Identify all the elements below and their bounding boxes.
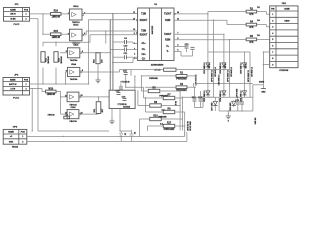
label D6 bbox=[257, 35, 259, 37]
junction J2 net bbox=[42, 83, 89, 84]
capacitor C12 bbox=[123, 70, 128, 74]
resistor R14 (vertical) bbox=[93, 53, 104, 64]
junction on JP1 pin1 net bbox=[42, 13, 43, 14]
label fan values bbox=[158, 95, 177, 125]
svg-text:W D/2 GND: W D/2 GND bbox=[190, 121, 192, 131]
capacitor C18 in box bbox=[116, 90, 121, 94]
svg-text:D2 W: D2 W bbox=[246, 63, 248, 68]
svg-text:D2 W: D2 W bbox=[225, 63, 227, 68]
resistor R15 bbox=[51, 31, 62, 39]
svg-text:W10: W10 bbox=[48, 88, 53, 90]
svg-text:47K: 47K bbox=[249, 13, 254, 16]
svg-text:PWRGND: PWRGND bbox=[176, 78, 187, 80]
label U10:3 74HC04 bbox=[70, 59, 78, 62]
svg-text:11: 11 bbox=[133, 12, 135, 14]
resistor R17 bbox=[163, 122, 175, 130]
svg-text:R17: R17 bbox=[167, 122, 172, 124]
label net col 2a bbox=[227, 70, 229, 81]
wire U10:3 input stub bbox=[60, 52, 68, 54]
wire D7 net to R3 bbox=[126, 86, 144, 88]
svg-text:2: 2 bbox=[272, 20, 273, 22]
wire V+ to C13 bbox=[174, 45, 187, 48]
svg-text:CR3 GND L2: CR3 GND L2 bbox=[220, 63, 222, 74]
svg-text:C2+: C2+ bbox=[141, 54, 146, 56]
svg-text:7: 7 bbox=[272, 52, 273, 54]
svg-text:BATT IN: BATT IN bbox=[9, 83, 17, 86]
svg-text:W 0/2: W 0/2 bbox=[176, 101, 178, 106]
capacitor C20 bbox=[240, 102, 244, 104]
connector UPS table (bottom-left) bbox=[3, 126, 27, 148]
svg-text:1M0148: 1M0148 bbox=[47, 55, 50, 63]
wire R5 right bbox=[160, 90, 180, 92]
svg-text:8: 8 bbox=[272, 58, 273, 60]
wire C19 top stub bbox=[237, 97, 239, 102]
junction C9 bbox=[125, 82, 126, 83]
ground lower tier bbox=[226, 113, 231, 122]
svg-text:1: 1 bbox=[25, 84, 26, 86]
resistor R6 bbox=[246, 36, 257, 44]
wire MAX232 R2OUT net bbox=[43, 35, 138, 43]
svg-text:CR5 GND L2: CR5 GND L2 bbox=[241, 63, 243, 74]
svg-text:GND: GND bbox=[261, 92, 266, 94]
wire lower tier left vert bbox=[218, 97, 220, 111]
svg-text:R1IN: R1IN bbox=[165, 20, 171, 22]
junction at R15 input bbox=[42, 34, 43, 35]
svg-text:BT 0/B: BT 0/B bbox=[155, 70, 162, 72]
label PWRGND bbox=[149, 78, 158, 80]
junction T2IN net bbox=[105, 30, 106, 31]
wire fan vert 1 bbox=[137, 90, 139, 105]
svg-text:47K: 47K bbox=[249, 26, 254, 29]
svg-text:C1+: C1+ bbox=[141, 43, 146, 45]
junction bus at U10:3 output bbox=[110, 49, 113, 54]
diode CR3 bbox=[220, 62, 226, 74]
wire bus to C11 bbox=[113, 56, 125, 58]
diode CR6 bbox=[241, 90, 247, 102]
svg-text:2: 2 bbox=[25, 88, 26, 90]
svg-text:UPS: UPS bbox=[13, 126, 18, 128]
svg-text:CR GND L2: CR GND L2 bbox=[231, 67, 233, 77]
wire lower tier top rail bbox=[182, 96, 253, 98]
svg-text:C8: C8 bbox=[134, 132, 136, 134]
svg-text:GND: GND bbox=[9, 141, 14, 143]
wire top rail bbox=[208, 51, 250, 53]
label U10:5 74HC04 bbox=[69, 104, 77, 109]
wire T2OUT net bbox=[174, 33, 224, 35]
svg-text:MAX232: MAX232 bbox=[151, 25, 154, 34]
svg-text:74HC04: 74HC04 bbox=[69, 120, 77, 123]
svg-text:CR GND L2: CR GND L2 bbox=[215, 67, 217, 77]
label CB1 bbox=[282, 3, 287, 5]
label net col 1b bbox=[215, 67, 217, 77]
wire bus line A bbox=[109, 20, 111, 90]
wire C14 top stub bbox=[194, 91, 196, 99]
diode D1 bbox=[120, 131, 127, 142]
svg-text:10: 10 bbox=[133, 29, 135, 31]
diode CR2 bbox=[204, 90, 210, 102]
label ADM202E below U1 bbox=[151, 64, 164, 67]
junction R1OUT net bbox=[110, 13, 113, 21]
wire R3 right net bbox=[187, 86, 196, 88]
wire lower tier bottom rail bbox=[219, 110, 253, 112]
junction J2 drop bbox=[32, 88, 33, 132]
label in box bbox=[118, 104, 131, 109]
wire diode column 3 left line bbox=[244, 52, 246, 97]
wire R20 right rail A bbox=[176, 69, 229, 71]
wire net2 through R4 to DB9 pin3 bbox=[257, 25, 270, 27]
connector JP1 table (top-left) bbox=[4, 4, 30, 26]
net label col A bbox=[196, 75, 198, 86]
svg-text:1M0148: 1M0148 bbox=[60, 55, 63, 63]
wire U10:6 input from junction bbox=[61, 97, 68, 114]
net label col C bbox=[236, 88, 238, 97]
svg-text:C1-: C1- bbox=[142, 49, 146, 51]
svg-text:D2: D2 bbox=[257, 7, 259, 9]
junction R2OUT net bbox=[55, 42, 56, 43]
label U10:4 74HC04 bbox=[70, 63, 78, 81]
svg-text:DB9S: DB9S bbox=[284, 20, 290, 22]
wire V- to C17 bbox=[174, 50, 193, 56]
wire U10:5 output right bbox=[81, 96, 109, 98]
ground below box bbox=[109, 118, 114, 124]
wire UPS pin1 rail bbox=[27, 135, 185, 137]
junction R14 top bbox=[97, 52, 98, 53]
wire JP1 pin1 to R16 bbox=[30, 13, 51, 15]
resistor R20 bbox=[164, 68, 176, 71]
svg-text:T2IN: T2IN bbox=[141, 31, 146, 33]
svg-text:D2 W: D2 W bbox=[209, 63, 211, 68]
wire R17 right bbox=[175, 125, 185, 127]
svg-text:1: 1 bbox=[22, 136, 23, 138]
inverter gate U10:4 bbox=[66, 67, 83, 76]
resistor R5 bbox=[148, 87, 160, 92]
wire caps bottom rail bbox=[195, 96, 204, 108]
capacitor C17 bbox=[191, 47, 195, 49]
wire C15 top stub bbox=[200, 91, 202, 99]
junction diode col 3 bbox=[244, 83, 251, 84]
wire R15 to gate U10:2 input bbox=[61, 33, 70, 35]
wire diode column 2 left line bbox=[223, 52, 225, 97]
capacitor C4 bbox=[124, 37, 128, 44]
junction R nets bbox=[195, 83, 196, 84]
svg-text:9: 9 bbox=[134, 33, 135, 35]
wire R14 top to U10:3 output net bbox=[97, 52, 99, 54]
wire bus line B bbox=[112, 14, 114, 91]
resistor W10 bbox=[46, 88, 57, 96]
capacitor C14 bbox=[192, 96, 197, 101]
wire UPS pin1 rail end up bbox=[184, 131, 186, 137]
wire T2OUT col drop bbox=[223, 34, 225, 52]
wire bottom link bbox=[120, 130, 132, 132]
svg-text:U10:4: U10:4 bbox=[71, 63, 76, 66]
label D4 bbox=[257, 19, 260, 22]
inverter gate U10:6 bbox=[65, 110, 83, 119]
wire C4 to C1+ pin bbox=[126, 42, 137, 43]
wire C15 bottom stub bbox=[200, 101, 202, 107]
wire C14 bottom stub bbox=[194, 101, 196, 107]
svg-text:CR4 GND L2: CR4 GND L2 bbox=[217, 75, 220, 86]
wire U10:3 output to bus bbox=[82, 52, 111, 54]
wire R2IN col drop bbox=[228, 40, 230, 52]
label net col 3c bbox=[246, 63, 248, 68]
wire stub to R12 top bbox=[42, 42, 44, 46]
label net col 3a bbox=[248, 70, 250, 81]
svg-text:PWRGND: PWRGND bbox=[164, 129, 175, 131]
wire right bus v1 bbox=[179, 91, 181, 131]
component D8 small box bbox=[64, 114, 70, 118]
resistor R8 bbox=[150, 102, 162, 107]
wire UPS pin2 rail bbox=[27, 141, 187, 143]
capacitor C19 bbox=[235, 100, 240, 104]
wire C20 bottom stub bbox=[241, 104, 243, 111]
resistor R2 bbox=[246, 8, 257, 16]
svg-text:R15: R15 bbox=[54, 31, 59, 33]
resistor R11 (vertical) bbox=[94, 102, 104, 114]
label CPD/D9S bbox=[279, 70, 289, 72]
svg-text:2: 2 bbox=[25, 19, 26, 21]
svg-text:1M0148: 1M0148 bbox=[52, 15, 61, 18]
svg-text:74HC04: 74HC04 bbox=[70, 78, 78, 81]
svg-text:T1OUT: T1OUT bbox=[164, 14, 172, 16]
svg-text:PLCC: PLCC bbox=[13, 98, 19, 100]
wire DB9 pin7 stub bbox=[263, 51, 269, 53]
capacitor C11 bbox=[124, 53, 129, 59]
wire branch to lower tier bbox=[253, 85, 264, 97]
wire G4 net into R20 bbox=[131, 69, 164, 71]
inverter gate U10:3 bbox=[66, 48, 83, 58]
wire lower tier right vert bbox=[252, 97, 254, 111]
svg-text:U10:1: U10:1 bbox=[73, 6, 79, 8]
svg-text:IN EN: IN EN bbox=[10, 19, 16, 21]
svg-text:T1IN: T1IN bbox=[141, 14, 146, 16]
svg-text:74C14: 74C14 bbox=[73, 23, 78, 26]
wire diode column 3 right line bbox=[249, 52, 251, 97]
svg-text:PWRGND: PWRGND bbox=[159, 95, 168, 97]
wire MAX232 R1OUT net down at x88.5 bbox=[89, 20, 136, 84]
svg-text:TB/A2: TB/A2 bbox=[12, 146, 19, 149]
wire R8 left bbox=[138, 105, 150, 107]
svg-text:4+2: 4+2 bbox=[161, 109, 164, 112]
wire box bottom left down bbox=[111, 109, 113, 122]
svg-text:4+2: 4+2 bbox=[160, 123, 163, 126]
junction tier rail bbox=[182, 97, 195, 98]
capacitor C13 bbox=[185, 44, 190, 48]
svg-text:CR9 GND: CR9 GND bbox=[230, 102, 232, 111]
wire T1OUT col drop bbox=[207, 14, 209, 52]
diode CR9 bbox=[230, 100, 236, 111]
wire U10:4 output right bbox=[82, 71, 120, 73]
wire CR7 bottom stub bbox=[214, 107, 216, 111]
svg-text:U10:5: U10:5 bbox=[71, 107, 76, 109]
resistor R7 bbox=[163, 94, 175, 99]
svg-text:R2IN: R2IN bbox=[165, 39, 171, 41]
svg-text:C2-: C2- bbox=[142, 58, 146, 60]
wire R10 left bbox=[140, 118, 150, 120]
wire R13 bottom down bbox=[55, 68, 57, 85]
svg-text:A TW: A TW bbox=[10, 87, 15, 90]
junction D7 net bbox=[125, 87, 126, 88]
wire C20 top stub bbox=[241, 97, 243, 102]
svg-text:NAME: NAME bbox=[10, 78, 16, 81]
junction C2- net bbox=[112, 62, 113, 63]
resistor R16 bbox=[51, 11, 62, 19]
junction C12 net bbox=[125, 69, 142, 77]
wire R9 right bbox=[175, 111, 185, 113]
wire R14 bottom to ground bbox=[97, 64, 99, 80]
wire C2- pin stub down bbox=[113, 59, 138, 63]
wire DB9 pin9 stub bbox=[263, 64, 269, 66]
wire drop from T2IN net bbox=[105, 31, 107, 44]
wire R7 right bbox=[175, 97, 183, 99]
svg-text:6: 6 bbox=[272, 46, 273, 48]
svg-text:1: 1 bbox=[25, 14, 26, 16]
wire J2 pin1 right bbox=[30, 83, 89, 85]
wire R12 bottom to J2 pin1 net bbox=[42, 68, 44, 85]
wire fan vert 4 bbox=[139, 119, 141, 136]
junction diode col 2 bbox=[223, 83, 230, 84]
svg-text:NAME: NAME bbox=[10, 8, 16, 11]
resistor R9 bbox=[163, 108, 175, 113]
wire C10 to C1- pin bbox=[126, 49, 137, 51]
svg-text:NAME: NAME bbox=[284, 8, 290, 11]
svg-text:AGND: AGND bbox=[259, 81, 265, 84]
svg-text:DP B GND: DP B GND bbox=[236, 88, 238, 97]
diode CR1 bbox=[204, 62, 210, 74]
resistor R10 bbox=[150, 115, 162, 120]
net labels right bus bbox=[187, 121, 192, 131]
wire R8 right bbox=[161, 105, 180, 107]
wire fan vert 2 bbox=[140, 76, 142, 91]
svg-text:PWRGND: PWRGND bbox=[158, 117, 167, 119]
svg-text:D1: D1 bbox=[125, 133, 127, 135]
wire feed to C14 bbox=[193, 83, 196, 91]
wire R1 right net bbox=[187, 76, 196, 84]
wire right bus v2 bbox=[181, 98, 183, 131]
ground DB9 earth bar bbox=[261, 85, 266, 94]
wire diode column 2 right line bbox=[228, 52, 230, 97]
svg-text:GND D/2 W: GND D/2 W bbox=[187, 121, 189, 131]
wire R17 left bbox=[148, 125, 164, 127]
svg-text:1M0148: 1M0148 bbox=[47, 93, 56, 96]
inverter gate U10:5 bbox=[65, 92, 83, 102]
svg-text:PLCC: PLCC bbox=[14, 24, 20, 26]
svg-text:CR1 GND L2: CR1 GND L2 bbox=[204, 63, 206, 74]
wire C9 top stub bbox=[120, 84, 122, 88]
svg-text:R2OUT: R2OUT bbox=[140, 34, 148, 36]
svg-text:9: 9 bbox=[272, 64, 273, 66]
wire CR7 top stub bbox=[214, 97, 216, 100]
capacitor C10 bbox=[123, 46, 128, 52]
wire net1 through R2 to DB9 pin1 bbox=[257, 12, 270, 15]
net label AGND bbox=[259, 81, 265, 84]
wire box bottom mid down bbox=[119, 109, 121, 132]
resistor R12 (vertical) bbox=[41, 52, 50, 64]
wire vertical x43 down to R15 input bbox=[43, 14, 51, 34]
wire R16 right to gate U10:1 input bbox=[61, 13, 70, 15]
connector J2 battery table (mid-left) bbox=[3, 74, 30, 99]
wire R1IN col drop bbox=[212, 20, 214, 52]
svg-text:12: 12 bbox=[133, 18, 135, 20]
svg-text:1T D7/B B: 1T D7/B B bbox=[118, 104, 128, 106]
svg-text:D8: D8 bbox=[66, 114, 68, 116]
wire W10 to U10:5 input bbox=[56, 92, 67, 97]
capacitor C15 bbox=[198, 97, 203, 101]
wire branch to U10:4 input bbox=[66, 72, 68, 84]
wire R7 left bbox=[144, 97, 164, 99]
svg-text:CR GND L2: CR GND L2 bbox=[251, 67, 253, 77]
svg-text:DP B GND V2: DP B GND V2 bbox=[227, 70, 229, 81]
block oscillator box bbox=[109, 90, 135, 108]
svg-text:U10:2: U10:2 bbox=[73, 45, 78, 47]
wire R1IN net from DB9 bbox=[174, 20, 246, 24]
label D2 bbox=[257, 7, 259, 9]
ground below R14 bbox=[95, 77, 100, 83]
label net col 1a bbox=[211, 70, 213, 81]
svg-text:NAME: NAME bbox=[8, 131, 14, 134]
resistor R1 bbox=[176, 73, 187, 81]
label U10:1 74HC14 bbox=[72, 6, 80, 26]
wire bus to C10 bbox=[110, 49, 124, 51]
label U10:2 74HC14 bbox=[72, 41, 80, 46]
wire C12 top bbox=[125, 70, 127, 73]
wire R2IN net3 bbox=[174, 38, 246, 40]
junction fan bus bbox=[179, 90, 185, 126]
svg-text:T2OUT: T2OUT bbox=[164, 34, 172, 36]
diode CR5 bbox=[241, 62, 247, 74]
wire fan vert 3 bbox=[145, 97, 147, 112]
svg-text:GND B2: GND B2 bbox=[255, 118, 257, 125]
wire fan vert 6 bbox=[147, 126, 149, 131]
svg-text:DP B GND V2: DP B GND V2 bbox=[211, 70, 213, 81]
junction U10:5 input bbox=[60, 96, 61, 97]
wire R11 top stub bbox=[98, 97, 100, 102]
wire U10:1 output to MAX232 T1IN bbox=[84, 13, 138, 15]
wire center tap to ground bbox=[227, 111, 229, 116]
svg-text:R16: R16 bbox=[54, 11, 59, 13]
wire R5 left bbox=[141, 90, 148, 92]
inverter gate U10:1 bbox=[68, 9, 85, 20]
wire bus to C4 to C1+ pin bbox=[113, 41, 125, 43]
wire C12 bottom bbox=[125, 75, 127, 81]
svg-text:3: 3 bbox=[68, 33, 69, 35]
label net col 2b bbox=[231, 67, 233, 77]
net label BT bbox=[155, 70, 162, 72]
wire DB9 ground vert bbox=[262, 52, 264, 85]
wire T1OUT to DB9 net1 bbox=[175, 12, 247, 14]
junction right nets bbox=[207, 13, 230, 40]
svg-text:DB IN: DB IN bbox=[10, 14, 16, 16]
svg-text:CR7 GND: CR7 GND bbox=[211, 102, 213, 111]
svg-text:ADM202EBN: ADM202EBN bbox=[151, 64, 164, 67]
svg-text:PWRGND: PWRGND bbox=[149, 78, 158, 80]
wire C19 bottom stub bbox=[237, 104, 239, 111]
junction bottom bbox=[131, 130, 132, 131]
svg-text:1M0148: 1M0148 bbox=[52, 36, 61, 39]
capacitor C16 in box bbox=[122, 96, 127, 100]
wire C11 to C2+ pin bbox=[126, 56, 137, 58]
wire R1 left net bbox=[141, 75, 176, 77]
wire box right edge up bbox=[134, 76, 136, 90]
wire J2 net down left bbox=[31, 89, 33, 132]
wire R10 right bbox=[161, 118, 182, 120]
svg-text:1: 1 bbox=[68, 13, 69, 15]
junction DB9 gnd net bbox=[263, 51, 264, 65]
wire middle rail bbox=[196, 83, 253, 85]
svg-text:5: 5 bbox=[272, 39, 273, 41]
svg-text:1: 1 bbox=[272, 14, 273, 16]
svg-text:CR2 GND L2: CR2 GND L2 bbox=[204, 91, 206, 102]
diode CR4 bbox=[219, 90, 226, 102]
